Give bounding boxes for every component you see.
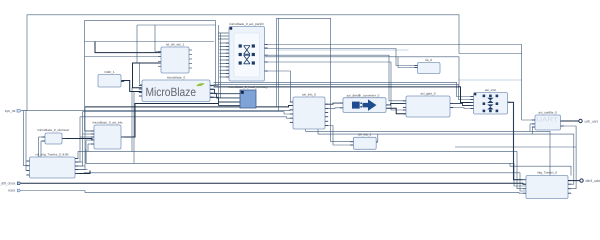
wire block8 right to interconnect2 <box>450 103 474 105</box>
wire light run y111.7 <box>83 112 294 114</box>
wire top loop from sys_rst port around top to right column <box>21 15 522 111</box>
port sys_rst input <box>5 109 21 113</box>
wire y159-166 right jogs <box>510 163 571 175</box>
wire light y50 run <box>277 49 409 51</box>
wire second clk input <box>325 126 353 146</box>
wire uart interrupt down <box>561 126 577 147</box>
block microblaze_0_axi_periph (AXI interconnect) <box>226 22 268 81</box>
wire L4 sys_diff_clock y183.3 dark <box>21 182 526 185</box>
wire intc right out <box>121 104 219 138</box>
wire bottom feedback y147 <box>455 147 576 189</box>
svg-text:mig_7series_0: mig_7series_0 <box>537 171 557 175</box>
block axi_smc interconnect2 <box>470 88 510 114</box>
svg-text:mdm_1: mdm_1 <box>104 70 115 74</box>
block mig axi block8 <box>403 92 453 118</box>
svg-text:reset: reset <box>8 189 16 193</box>
svg-text:microblaze_0: microblaze_0 <box>167 76 186 80</box>
wire microblaze cache band <box>214 82 474 96</box>
wire port1 long run under microblaze <box>21 109 293 112</box>
wire periph feed bundle verticals <box>217 25 219 101</box>
port usb_uart output <box>561 119 598 123</box>
svg-text:microblaze_0_axi_intc: microblaze_0_axi_intc <box>92 121 123 125</box>
svg-text:rst_clk_wiz_1: rst_clk_wiz_1 <box>166 43 185 47</box>
block microblaze_0_local_memory <box>228 85 268 108</box>
wire interconnect2 to mig dark bus <box>508 102 523 179</box>
wire rst left feeds <box>24 111 30 166</box>
wire fourth top line x137 <box>140 83 143 85</box>
block rst_clk_wiz_1_100M (proc sys reset) <box>158 43 192 74</box>
svg-text:axi_gpio_0: axi_gpio_0 <box>421 92 436 96</box>
wire bottom feedback y133.3 <box>318 129 574 184</box>
wire xlconcat left stubs <box>39 136 46 138</box>
wire bundle x276 down to axi_intc block <box>276 18 278 107</box>
svg-text:sys_rst: sys_rst <box>5 109 16 113</box>
block clk small <box>350 133 378 150</box>
wire L3 y172.8 <box>75 173 84 175</box>
block axi_uartlite_0 <box>532 111 564 131</box>
block timer small top <box>414 58 440 74</box>
block rst_mig_7series_0_81M <box>26 153 78 179</box>
wire mdm down verticals <box>131 88 133 152</box>
svg-text:axi_intc_0: axi_intc_0 <box>302 93 316 97</box>
block axi_dwidth_converter with arrow icon <box>340 93 389 112</box>
block axi_intc_0 <box>290 93 328 130</box>
wire dark x95 y52.6 <box>95 42 161 53</box>
wire block6 to arrow block <box>325 103 343 104</box>
svg-text:clk_wiz_1: clk_wiz_1 <box>358 133 372 137</box>
wire intc left stubs <box>85 130 94 132</box>
block mdm_1 <box>98 70 124 87</box>
wire y42 run <box>85 130 95 132</box>
svg-text:microblaze_0_local_memory: microblaze_0_local_memory <box>228 85 268 89</box>
wire bottom feedback y130.5 <box>306 129 550 176</box>
block microblaze_0 <box>139 76 214 102</box>
wire microblaze right to local memory <box>210 89 240 93</box>
svg-text:ila_0: ila_0 <box>425 58 432 62</box>
block microblaze_0_axi_intc left <box>91 121 124 150</box>
svg-text:axi_dwidth_converter_0: axi_dwidth_converter_0 <box>347 93 380 97</box>
block xlconcat <box>37 128 69 144</box>
wire rst bundle left verticals <box>75 117 80 162</box>
svg-text:UART: UART <box>536 117 558 124</box>
wire L1 ui_clk y151.6 <box>75 152 523 189</box>
wire dark debug elbow <box>133 63 162 88</box>
wire dark run y106.9 to axi_intc <box>85 106 293 107</box>
wire light y80 run <box>459 79 522 81</box>
svg-text:sys_diff_clock: sys_diff_clock <box>0 182 16 186</box>
wire clk block right up to lines <box>376 134 378 142</box>
wire second top line x84.5 <box>85 21 216 131</box>
wire mdm to microblaze <box>121 81 142 92</box>
block mig_7series_0 <box>523 171 571 199</box>
wire light run y116.8 <box>80 117 293 118</box>
wire L2 y163.3 <box>86 149 526 186</box>
port sys_diff_clock input <box>0 182 21 186</box>
wire L5 reset y192.4 <box>21 191 523 194</box>
wire uart clk feeds <box>529 124 531 131</box>
wire periph to timer block double <box>265 55 407 101</box>
svg-text:MicroBlaze: MicroBlaze <box>146 85 197 99</box>
svg-text:microblaze_0_xlconcat: microblaze_0_xlconcat <box>37 128 69 132</box>
interconnect icon squares <box>239 44 242 47</box>
svg-text:ddr3_sdram: ddr3_sdram <box>586 179 600 183</box>
svg-text:axi_uartlite_0: axi_uartlite_0 <box>538 111 557 115</box>
svg-text:axi_smc: axi_smc <box>485 88 497 92</box>
wire rst_clk left stubs <box>155 25 161 52</box>
wire periph left pin stubs from bundle <box>218 33 229 77</box>
wire arrow block to block8 <box>386 104 406 105</box>
port reset input <box>8 189 21 193</box>
svg-text:rst_mig_7series_0_81M: rst_mig_7series_0_81M <box>35 153 68 157</box>
svg-text:microblaze_0_axi_periph: microblaze_0_axi_periph <box>229 22 264 26</box>
svg-text:usb_uart: usb_uart <box>585 119 598 123</box>
port ddr3_sdram output <box>568 179 600 183</box>
wire rst_mig right outputs <box>75 161 83 163</box>
wire long vertical x330 to clk block <box>331 18 354 141</box>
